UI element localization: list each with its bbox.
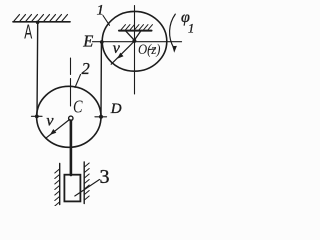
damper left wall bbox=[59, 164, 61, 205]
right rim node D of pulley 2 bbox=[99, 115, 103, 119]
pivot triangle of pulley 1 bbox=[126, 31, 141, 40]
horizontal diameter line through E and O bbox=[93, 41, 182, 43]
leader line for label 1 bbox=[103, 16, 110, 26]
svg-text:C: C bbox=[73, 96, 83, 116]
right rim tick of pulley 2 bbox=[95, 116, 107, 118]
damper left wall hatching bbox=[55, 169, 60, 206]
fixed support bar inside pulley 1 bbox=[119, 30, 152, 32]
piston 3 (rectangle) bbox=[64, 175, 80, 202]
svg-text:A: A bbox=[24, 20, 32, 43]
axle pin C of pulley 2 bbox=[69, 116, 73, 120]
axle pin O of pulley 1 bbox=[132, 39, 136, 43]
leader line for label 3 bbox=[75, 180, 100, 197]
left rim tick of pulley 2 bbox=[32, 115, 43, 117]
svg-text:v: v bbox=[113, 40, 121, 57]
svg-text:D: D bbox=[110, 101, 122, 117]
svg-text:E: E bbox=[82, 31, 93, 50]
leader line for label 2 bbox=[75, 75, 81, 88]
radius arrow r of pulley 2 bbox=[46, 120, 70, 139]
rope from E down to pulley 2 rim at D bbox=[100, 42, 102, 117]
svg-text:3: 3 bbox=[100, 166, 110, 188]
svg-text:1: 1 bbox=[188, 22, 194, 36]
svg-text:2: 2 bbox=[82, 59, 90, 78]
fixed support hatching inside pulley 1 bbox=[121, 25, 153, 30]
vertical center line above pulley 2 bbox=[70, 58, 72, 106]
radius arrow r of pulley 1 bbox=[111, 42, 134, 65]
rotation arrow phi1 bbox=[170, 14, 176, 48]
attachment node at ceiling bbox=[36, 21, 40, 25]
pulley 2 (lower disk) bbox=[37, 86, 101, 147]
node E on pulley 1 rim bbox=[100, 40, 104, 44]
damper right wall bbox=[83, 162, 85, 204]
left rim node of pulley 2 bbox=[35, 115, 39, 119]
rope from ceiling A to pulley 2 left edge bbox=[36, 22, 39, 116]
piston rod from C down to damper bbox=[70, 121, 73, 176]
ceiling line bbox=[13, 21, 70, 23]
vertical axis line of pulley 1 bbox=[134, 6, 136, 95]
damper right wall hatching bbox=[84, 163, 89, 200]
svg-text:v: v bbox=[46, 112, 54, 129]
pulley 1 (upper disk) bbox=[102, 11, 167, 71]
ceiling support at A (hatched) bbox=[14, 15, 68, 22]
